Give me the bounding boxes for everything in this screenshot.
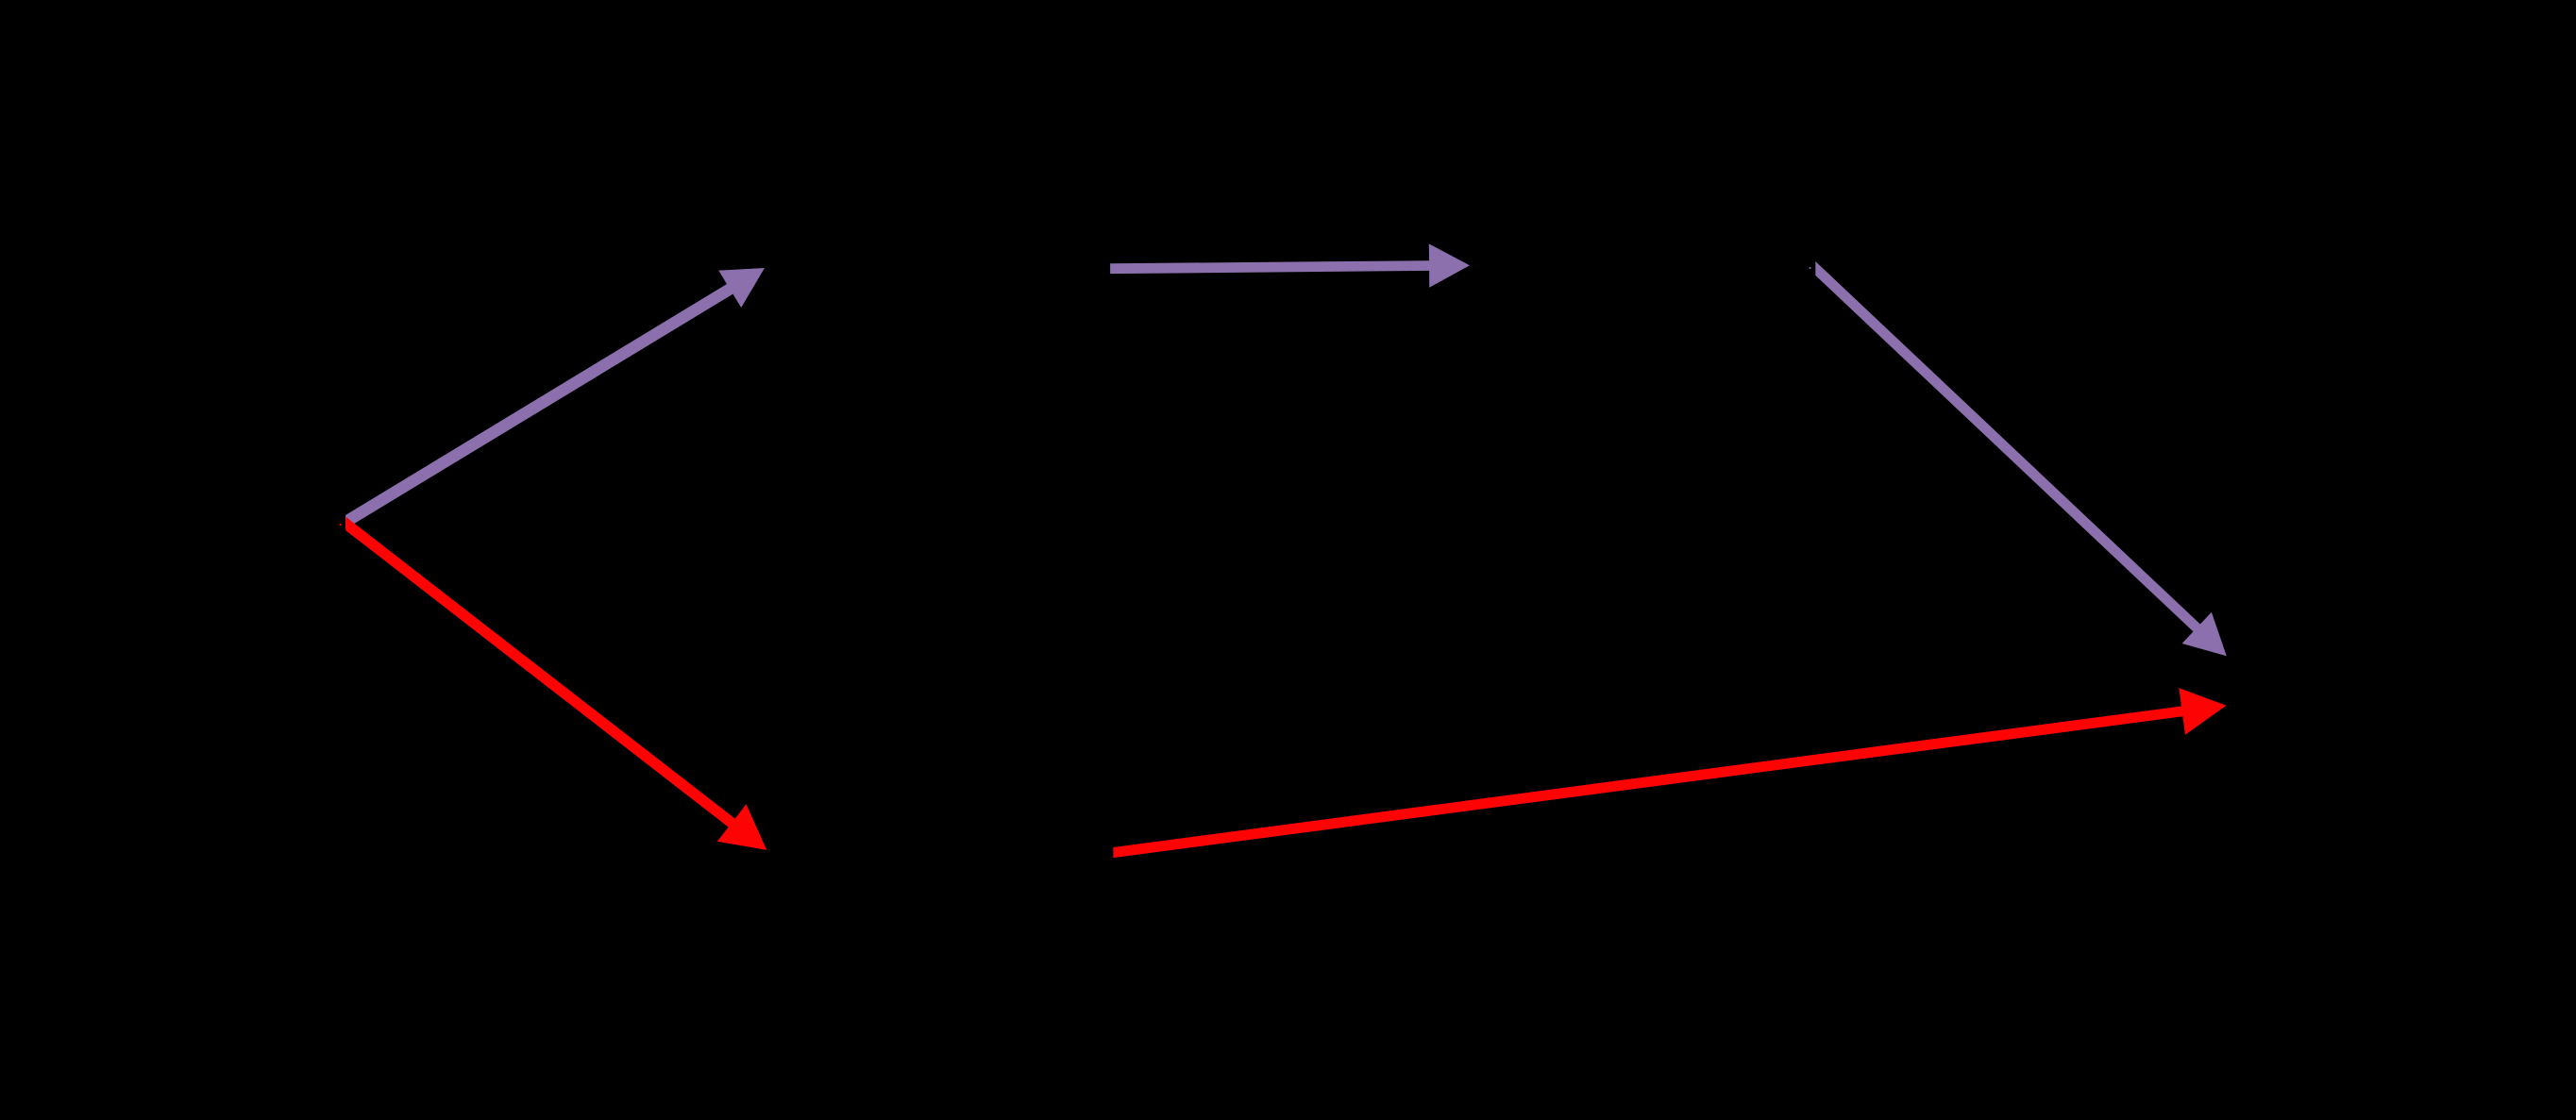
purple anchor dot near arrow 3 tail — [1810, 267, 1811, 269]
red arrow 1 (from left node down-right) — [345, 517, 766, 850]
red arrow 2 (long, slightly rising left-to-right) — [1113, 688, 2226, 858]
purple arrow 2 (horizontal, top middle) — [1110, 243, 1470, 287]
purple arrow 3 (down-right to lower node) — [1815, 261, 2227, 656]
purple arrow 1 (from left node up-right) — [345, 268, 765, 529]
red anchor dot near arrow 1 tail — [340, 524, 342, 526]
